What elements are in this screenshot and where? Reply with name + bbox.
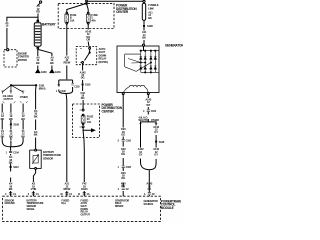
connector C100 ticks [122,140,125,141]
power distribution center box [58,3,114,28]
generator G1 [117,44,159,94]
svg-text:40A: 40A [91,18,96,22]
svg-text:C100: C100 [151,110,157,113]
svg-text:CENTER: CENTER [116,10,129,14]
svg-text:OR: OR [86,38,90,42]
wire to generator [143,27,145,44]
wire fused B+ long run [65,94,68,197]
wire fuse2 to relay [87,24,90,46]
svg-text:BK: BK [9,134,13,138]
svg-text:BK: BK [1,117,5,121]
wire fuse1 output [66,24,68,79]
PCM entry ticks [9,188,151,194]
wire relay output [82,63,84,83]
svg-text:(8W-5): (8W-5) [39,88,46,91]
svg-text:B(+): B(+) [62,202,67,205]
wire splice to PDC2 [82,85,85,109]
svg-text:RD: RD [36,10,40,14]
svg-text:OUTPUT: OUTPUT [81,213,91,216]
svg-text:DG: DG [81,96,85,100]
diode bank [140,50,141,51]
wire variant split left [2,85,23,93]
svg-text:BK: BK [50,61,54,65]
svg-text:BK: BK [21,134,25,138]
svg-text:DG: DG [81,76,85,80]
svg-text:C100: C100 [60,90,66,93]
svg-text:BK: BK [34,114,38,118]
wire battery negative right [39,50,52,70]
wire merge to C104 [2,141,23,197]
fuse F2 [86,12,90,24]
svg-text:(IN PDC): (IN PDC) [99,60,109,64]
powertrain control module box [3,196,161,221]
node PDC feed [86,0,88,2]
wire variant split right [141,112,157,125]
svg-text:GROUND: GROUND [5,202,15,205]
svg-text:GY: GY [154,153,158,157]
connector split C100/C102 [58,80,74,94]
splice S126 [155,141,157,143]
stator windings [125,54,141,71]
wire generator output sense [147,95,149,110]
splice S110 [82,83,84,85]
fusible link [142,0,145,25]
fuse F1 [65,12,69,24]
svg-text:RD/W: RD/W [63,61,70,65]
connector C104 ticks [9,151,12,152]
svg-text:BK: BK [142,36,146,40]
svg-text:RD/W: RD/W [63,187,70,191]
ground G101 [50,70,54,73]
svg-text:S112: S112 [13,165,19,169]
svg-text:W/AUTO: W/AUTO [139,119,148,122]
svg-text:10A: 10A [87,120,92,124]
svg-text:C104: C104 [13,152,19,155]
svg-text:C105: C105 [126,166,132,169]
svg-text:GY: GY [147,187,151,191]
svg-text:BK: BK [9,117,13,121]
wire battery temp sensor feed [35,86,37,149]
svg-text:C100: C100 [126,140,132,143]
svg-text:GENERATOR: GENERATOR [165,43,183,47]
svg-text:DG: DG [121,152,125,156]
svg-text:MODULE: MODULE [161,206,174,210]
svg-text:SIGNAL: SIGNAL [27,208,36,211]
field coil [130,85,145,86]
wire battery feed [38,3,40,21]
splice S100 [10,123,12,125]
battery B1 [34,20,41,49]
splice S108 [143,25,145,27]
S101 ground bus [11,84,37,86]
svg-text:S100: S100 [13,122,19,126]
svg-text:10A: 10A [70,18,75,22]
svg-text:OTHER: OTHER [151,119,159,122]
svg-text:SOURCE: SOURCE [144,203,154,206]
svg-text:GY: GY [139,153,143,157]
wire generator field [122,95,124,197]
power distribution center box 2 [73,104,100,138]
svg-text:DG: DG [121,176,125,180]
svg-text:BK: BK [1,134,5,138]
svg-text:DG: DG [121,184,125,188]
wire sensor signal [33,169,35,196]
svg-text:CENTER: CENTER [102,109,115,113]
svg-text:DRIVER: DRIVER [115,205,124,208]
svg-text:OUTPUT: OUTPUT [4,98,14,101]
svg-text:BK: BK [34,133,38,137]
svg-text:BK: BK [21,117,25,121]
svg-text:BK: BK [148,16,152,20]
wire starter branch [7,17,38,49]
svg-text:G100: G100 [41,70,47,74]
svg-text:VT/B: VT/B [31,187,37,191]
svg-text:DG/O: DG/O [81,187,87,191]
svg-text:BATTERY: BATTERY [42,23,56,27]
svg-text:OTHER: OTHER [20,96,28,99]
svg-text:BK: BK [9,160,13,164]
connector C105 ticks [122,166,125,167]
wire fused ASD output long run [83,130,84,196]
wire battery negative left [37,49,39,69]
svg-text:SENSOR: SENSOR [43,156,53,160]
engine starter motor M1 [4,50,17,67]
wire B+ top run to fusible link [87,0,142,2]
svg-text:WT: WT [146,103,150,107]
svg-text:G101: G101 [55,70,61,74]
auto shut down relay K1 [76,47,97,65]
svg-text:BK: BK [9,187,13,191]
ground G100 [36,70,40,73]
svg-text:BK: BK [36,61,40,65]
splice S112 [10,166,12,168]
node B+ feed circle top-left [40,1,42,3]
wire to fuse tops [67,3,88,12]
svg-text:C102: C102 [74,86,80,89]
battery temperature sensor [30,149,42,169]
svg-text:S110: S110 [85,83,91,87]
connector C100 ticks right [147,110,150,111]
svg-text:GY: GY [154,130,158,134]
svg-text:LINK: LINK [148,6,154,10]
svg-text:MOTOR: MOTOR [18,58,27,62]
wire merge to PCM [141,162,157,196]
svg-text:S108: S108 [147,24,153,28]
svg-text:S126: S126 [159,140,165,144]
svg-text:DG: DG [121,133,125,137]
